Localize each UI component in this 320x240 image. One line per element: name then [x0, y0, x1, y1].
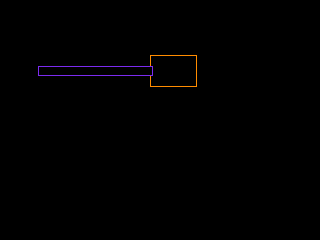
purple rectangle — [39, 67, 153, 76]
orange rectangle — [151, 56, 197, 87]
